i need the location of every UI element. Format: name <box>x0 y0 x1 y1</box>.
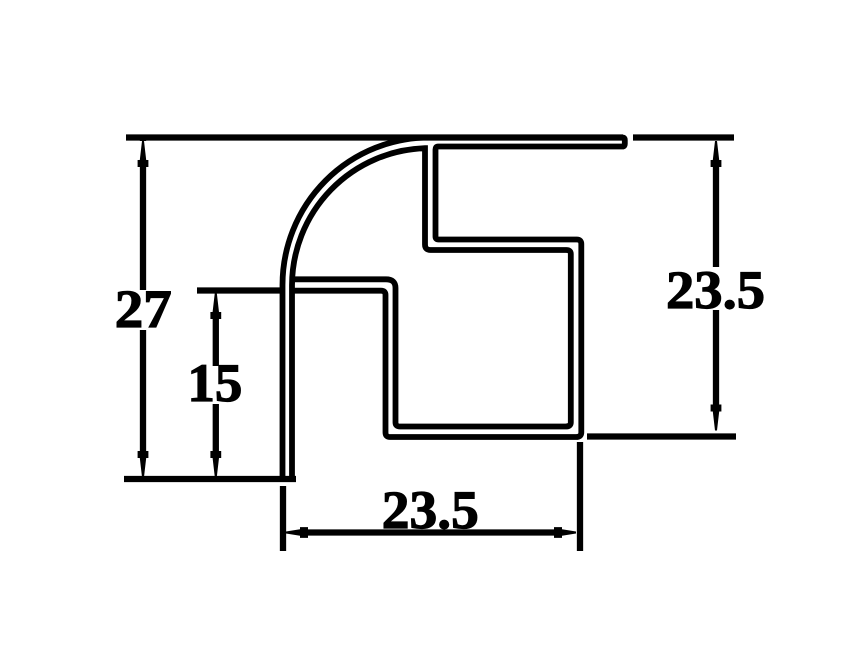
svg-text:23.5: 23.5 <box>382 480 479 540</box>
svg-text:23.5: 23.5 <box>666 260 765 320</box>
svg-text:15: 15 <box>187 353 242 413</box>
svg-text:27: 27 <box>115 279 172 339</box>
